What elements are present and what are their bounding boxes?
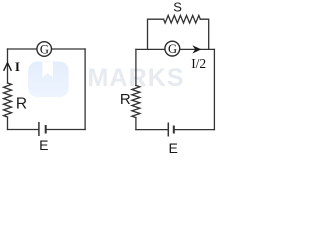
shunt left connector wire <box>148 19 164 49</box>
wire top left circuit <box>8 48 86 50</box>
resistor S zigzag <box>164 15 201 23</box>
wire left side lower segment <box>7 117 9 130</box>
battery E2 long plate <box>167 123 169 137</box>
shunt right connector wire <box>200 19 208 49</box>
svg-text:E: E <box>39 137 48 153</box>
wire bottom left of battery <box>136 129 168 131</box>
battery E1 long plate <box>38 122 40 136</box>
wire right side <box>213 49 215 129</box>
wire left side upper segment <box>7 49 9 83</box>
resistor R2 zigzag right circuit <box>132 86 140 118</box>
wire bottom left of battery <box>8 129 39 131</box>
svg-text:S: S <box>173 0 182 15</box>
watermark logo bookmark glyph <box>43 62 54 78</box>
svg-text:R: R <box>120 91 131 108</box>
svg-text:E: E <box>169 140 178 156</box>
battery E2 short plate <box>173 126 175 134</box>
battery E1 short plate <box>45 125 47 134</box>
svg-text:G: G <box>168 42 177 56</box>
svg-text:R: R <box>16 96 27 113</box>
resistor R1 zigzag left circuit <box>4 83 12 117</box>
svg-text:I: I <box>15 59 20 74</box>
galvanometer G1 circle <box>37 42 52 57</box>
wire bottom right of battery <box>46 129 85 131</box>
wire bottom right of battery <box>174 129 215 131</box>
svg-text:G: G <box>40 43 49 57</box>
wire left side lower <box>135 118 137 130</box>
wire top side (G branch) <box>136 48 215 50</box>
svg-text:I/2: I/2 <box>191 56 206 71</box>
wire right side left circuit <box>84 49 86 130</box>
current arrow right (I/2) <box>192 45 201 53</box>
current arrow up <box>4 63 12 71</box>
wire left side upper <box>135 49 137 85</box>
galvanometer G2 circle <box>165 41 180 56</box>
